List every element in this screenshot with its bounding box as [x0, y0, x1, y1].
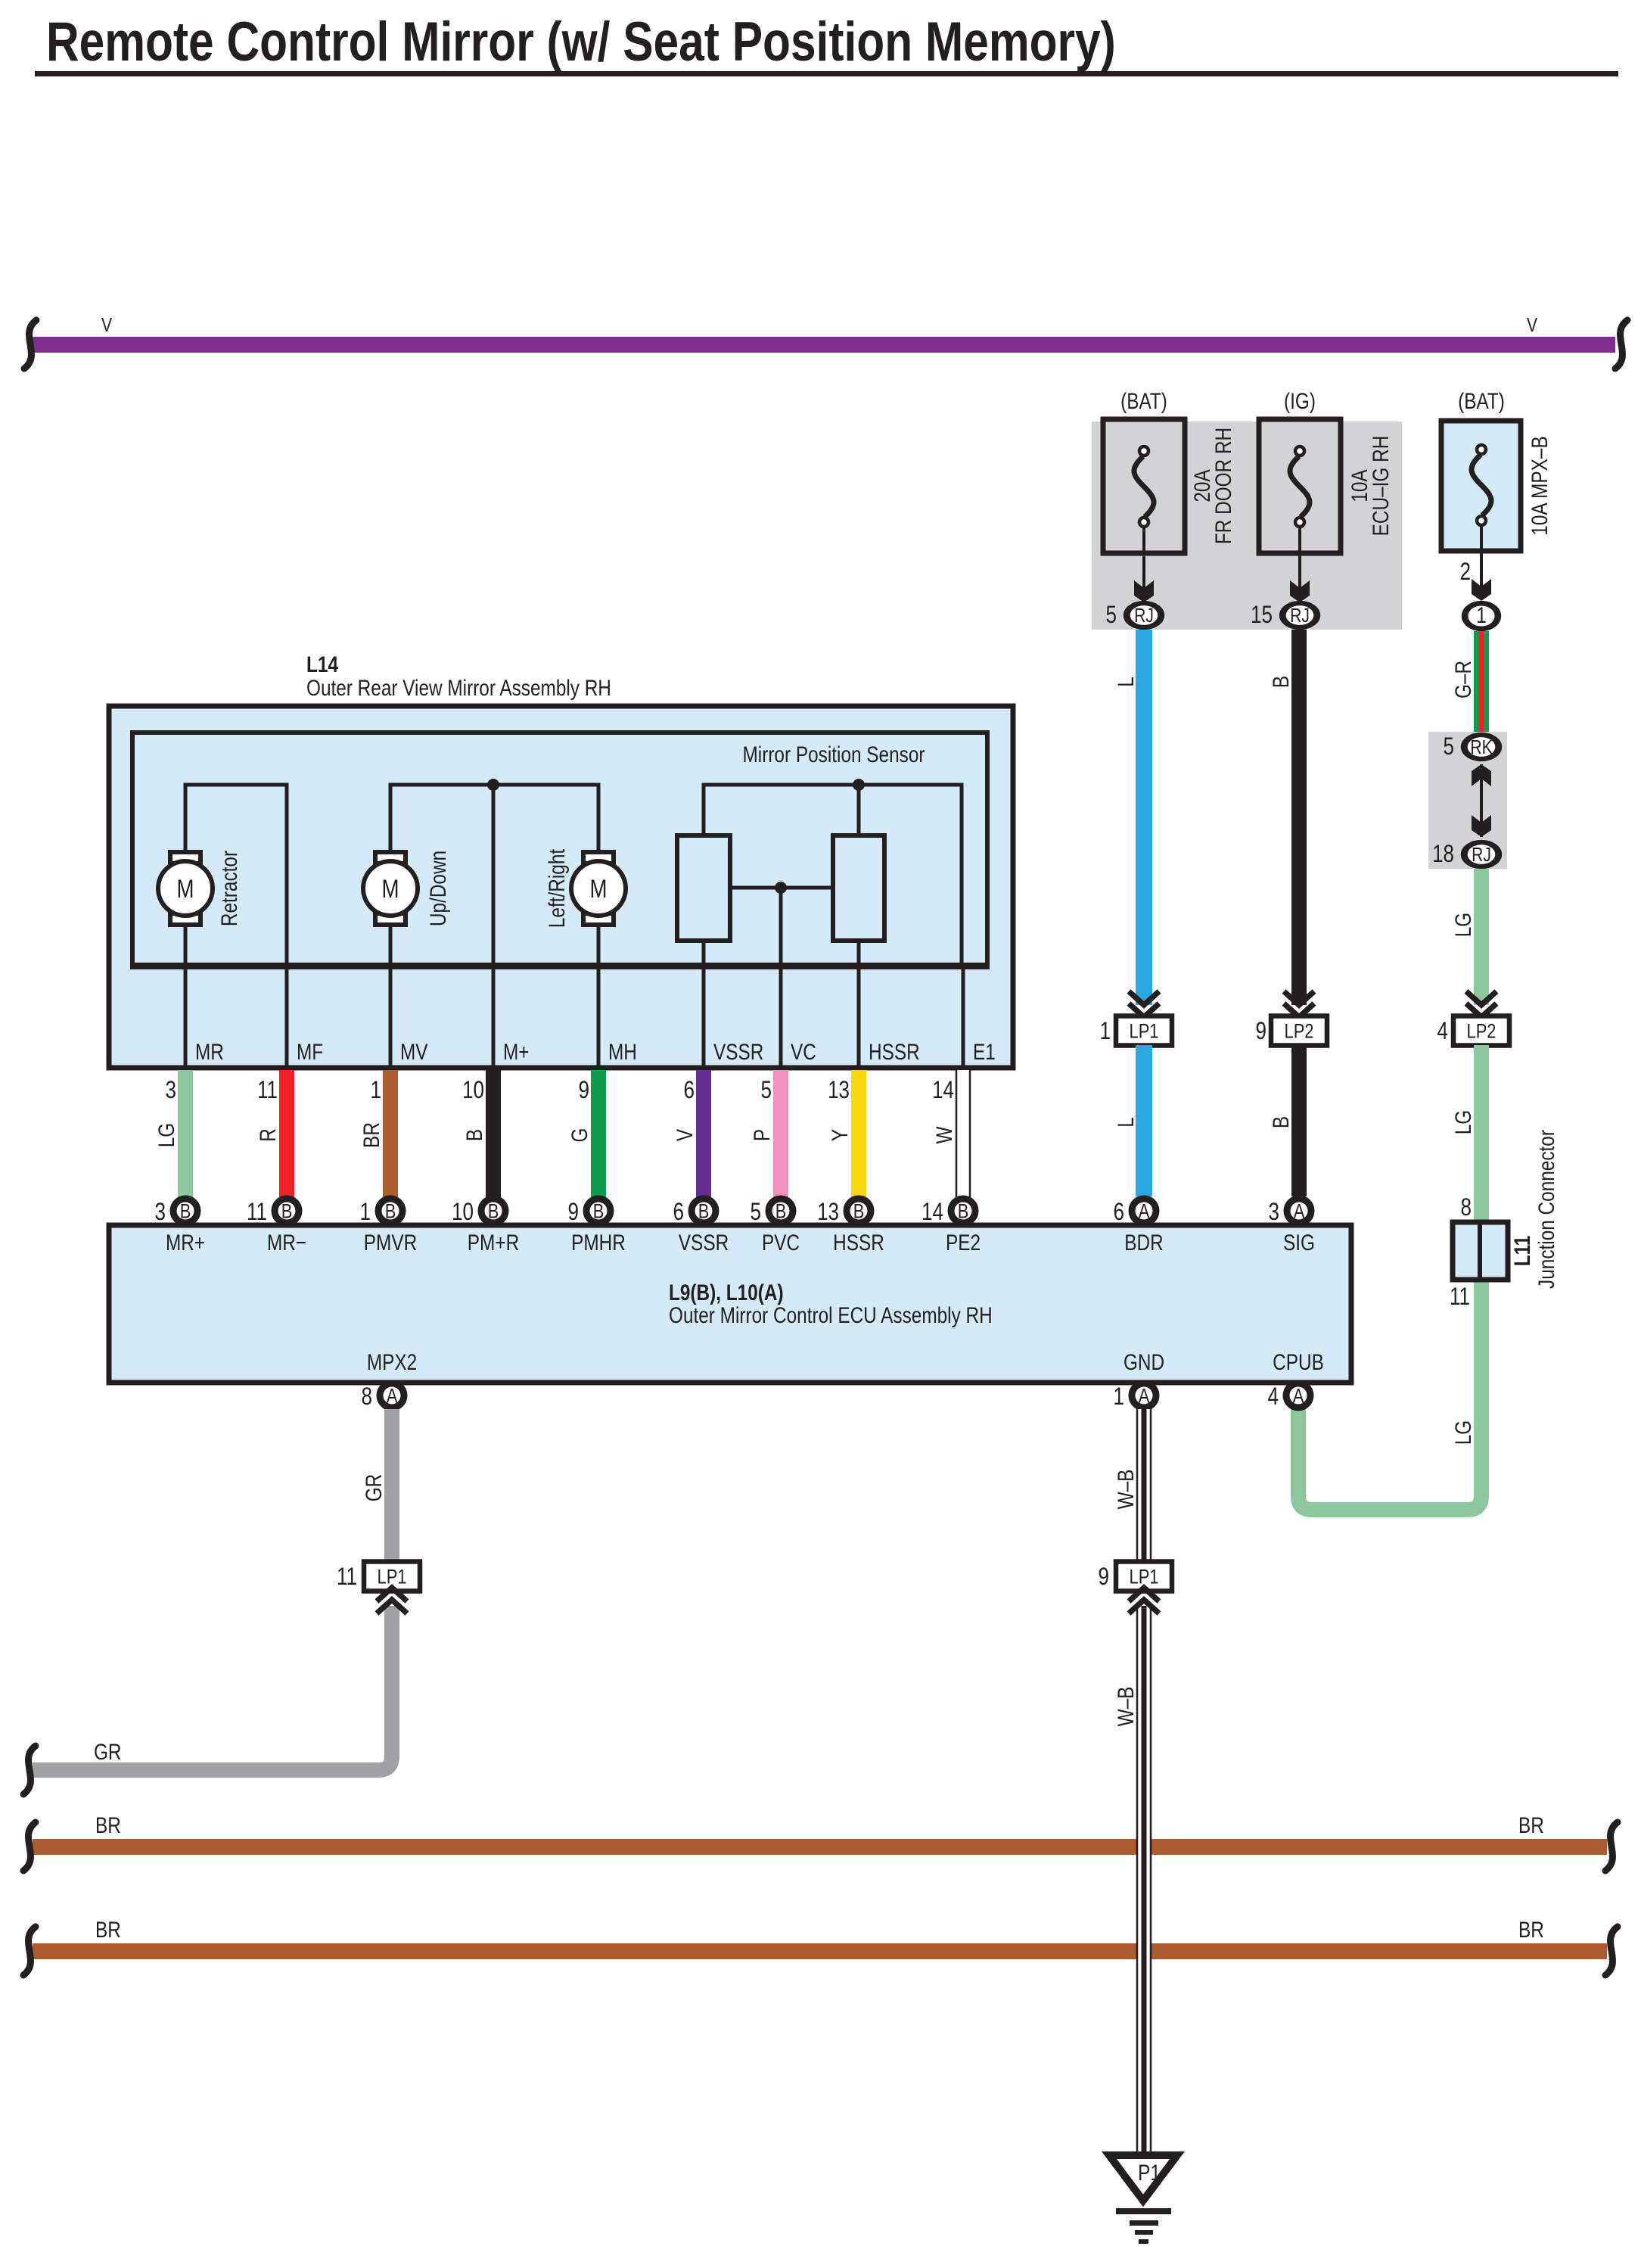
- svg-text:LG: LG: [154, 1123, 179, 1148]
- svg-text:B: B: [462, 1129, 487, 1141]
- svg-text:M: M: [590, 875, 608, 904]
- svg-text:10: 10: [462, 1076, 484, 1103]
- svg-text:8: 8: [362, 1383, 373, 1410]
- svg-text:9: 9: [568, 1198, 580, 1225]
- wire LG from L11 down to corner and to CPUB: [1298, 1275, 1481, 1510]
- svg-text:A: A: [1139, 1200, 1150, 1223]
- svg-text:M: M: [177, 875, 194, 904]
- wire fuse2 to RJ: [1298, 527, 1301, 590]
- wire BR bus 2: [33, 1943, 1607, 1959]
- svg-text:5: 5: [1106, 601, 1117, 628]
- svg-text:Outer Mirror Control ECU Assem: Outer Mirror Control ECU Assembly RH: [669, 1303, 993, 1328]
- svg-text:MR−: MR−: [267, 1230, 306, 1255]
- motor M retractor: [170, 852, 200, 863]
- connector 9 LP2: [1271, 1016, 1327, 1046]
- svg-text:(IG): (IG): [1284, 389, 1316, 414]
- junction node VC: [775, 882, 787, 894]
- arrow between RK and RJ: [1480, 764, 1483, 837]
- svg-text:3: 3: [155, 1198, 166, 1225]
- svg-text:GR: GR: [94, 1740, 122, 1765]
- svg-text:A: A: [1293, 1385, 1304, 1408]
- svg-text:Up/Down: Up/Down: [426, 851, 451, 926]
- svg-text:6: 6: [673, 1198, 685, 1225]
- svg-text:ECU–IG RH: ECU–IG RH: [1369, 436, 1394, 537]
- svg-text:V: V: [1527, 313, 1538, 336]
- wire R pin 11: [279, 1070, 294, 1199]
- svg-text:LP1: LP1: [1130, 1020, 1159, 1043]
- svg-text:L9(B), L10(A): L9(B), L10(A): [669, 1280, 784, 1305]
- break symbol right of V bus: [1615, 320, 1627, 369]
- svg-text:LP2: LP2: [1285, 1020, 1314, 1043]
- svg-text:L: L: [1114, 1117, 1139, 1128]
- svg-text:MPX2: MPX2: [367, 1350, 417, 1375]
- svg-text:Mirror Position Sensor: Mirror Position Sensor: [743, 742, 925, 767]
- wire BR pin 1: [383, 1070, 398, 1199]
- sensor resistor 1: [677, 835, 730, 941]
- connector 18 RJ: [1464, 842, 1498, 866]
- svg-text:PMHR: PMHR: [571, 1230, 626, 1255]
- svg-text:B: B: [775, 1200, 787, 1223]
- svg-text:5: 5: [1444, 733, 1455, 760]
- svg-text:6: 6: [1114, 1198, 1125, 1225]
- svg-text:HSSR: HSSR: [833, 1230, 884, 1255]
- motor M up/down: [375, 852, 406, 863]
- svg-text:A: A: [387, 1385, 398, 1408]
- junction node M+: [487, 779, 499, 791]
- svg-text:4: 4: [1268, 1383, 1279, 1410]
- pin column stubs inside L14: [184, 966, 188, 1070]
- svg-text:9: 9: [579, 1076, 590, 1103]
- pin 6 A BDR: [1132, 1199, 1156, 1223]
- svg-text:6: 6: [684, 1076, 695, 1103]
- svg-text:LP2: LP2: [1467, 1020, 1496, 1043]
- motor M left/right: [583, 852, 614, 863]
- wire B (black) from 15 RJ to LP2: [1291, 630, 1307, 1005]
- svg-text:(BAT): (BAT): [1458, 389, 1505, 414]
- break symbol GR left: [23, 1746, 36, 1794]
- svg-text:VSSR: VSSR: [713, 1040, 763, 1065]
- svg-text:5: 5: [761, 1076, 772, 1103]
- svg-text:BR: BR: [95, 1813, 121, 1838]
- wire fuse1 to RJ: [1142, 527, 1145, 590]
- svg-text:13: 13: [817, 1198, 839, 1225]
- pin 8 A MPX2: [380, 1383, 404, 1408]
- svg-text:BR: BR: [359, 1122, 384, 1148]
- svg-text:MH: MH: [608, 1040, 637, 1065]
- pin 10 B: [481, 1199, 505, 1223]
- wire up/down + left/right loop: [390, 785, 598, 852]
- svg-text:HSSR: HSSR: [869, 1040, 920, 1065]
- svg-text:1: 1: [1100, 1017, 1111, 1044]
- svg-text:(BAT): (BAT): [1120, 389, 1167, 414]
- svg-text:P: P: [750, 1129, 775, 1141]
- connector 5 RK: [1464, 735, 1498, 759]
- connector 5 RJ: [1127, 603, 1161, 627]
- wire V bus (purple): [33, 337, 1615, 353]
- svg-text:W–B: W–B: [1114, 1687, 1139, 1727]
- svg-text:PE2: PE2: [946, 1230, 981, 1255]
- wire W-B lower part: [1136, 1606, 1151, 2152]
- wire G-R (green/red): [1474, 631, 1489, 734]
- wire P pin 5: [773, 1070, 788, 1199]
- svg-text:W–B: W–B: [1114, 1470, 1139, 1510]
- svg-text:14: 14: [922, 1198, 943, 1225]
- connector 9 LP1: [1116, 1562, 1172, 1591]
- svg-text:B: B: [698, 1200, 710, 1223]
- pin 11 B: [275, 1199, 299, 1223]
- svg-text:10A MPX–B: 10A MPX–B: [1528, 436, 1552, 535]
- pin 1 A GND: [1132, 1383, 1156, 1408]
- svg-text:LG: LG: [1451, 913, 1476, 938]
- svg-text:B: B: [1269, 1116, 1294, 1128]
- svg-text:VSSR: VSSR: [679, 1230, 729, 1255]
- svg-text:GND: GND: [1124, 1350, 1164, 1375]
- svg-text:L: L: [1114, 677, 1139, 687]
- svg-text:Outer Rear View Mirror Assembl: Outer Rear View Mirror Assembly RH: [306, 676, 611, 701]
- svg-text:3: 3: [166, 1076, 177, 1103]
- component L9(B) L10(A) Outer Mirror Control ECU Assembly RH: [109, 1225, 1351, 1383]
- svg-text:E1: E1: [973, 1040, 996, 1065]
- wire V pin 6: [696, 1070, 711, 1199]
- connector 15 RJ: [1282, 603, 1316, 627]
- svg-text:11: 11: [337, 1563, 357, 1590]
- svg-text:L14: L14: [306, 652, 338, 677]
- svg-text:MR: MR: [195, 1040, 224, 1065]
- svg-text:V: V: [101, 313, 113, 336]
- svg-text:LG: LG: [1451, 1420, 1476, 1445]
- wire W pin 14: [956, 1070, 971, 1199]
- sensor resistor 2: [833, 835, 884, 941]
- svg-text:MR+: MR+: [166, 1230, 205, 1255]
- wire LG from LP2 to L11: [1474, 1045, 1489, 1227]
- pin 9 B: [586, 1199, 611, 1223]
- svg-text:13: 13: [828, 1076, 850, 1103]
- svg-text:3: 3: [1269, 1198, 1280, 1225]
- wire fuse3 pin 2: [1480, 526, 1483, 590]
- svg-text:PMVR: PMVR: [364, 1230, 417, 1255]
- svg-text:BR: BR: [1518, 1813, 1544, 1838]
- wire L (blue) from 5 RJ to LP1: [1136, 630, 1152, 1005]
- svg-text:A: A: [1294, 1200, 1305, 1223]
- svg-text:RJ: RJ: [1290, 604, 1310, 627]
- pin 6 B: [692, 1199, 716, 1223]
- svg-text:11: 11: [1450, 1283, 1470, 1310]
- svg-text:B: B: [281, 1200, 293, 1223]
- svg-text:B: B: [488, 1200, 499, 1223]
- inner box: [132, 733, 987, 966]
- wire GR from LP1 to left edge: [33, 1606, 392, 1770]
- fuse 10A MPX-B: [1441, 421, 1521, 551]
- break symbol left of V bus: [24, 320, 36, 369]
- sensor wiring: [704, 785, 962, 963]
- svg-text:MF: MF: [297, 1040, 323, 1065]
- svg-text:5: 5: [751, 1198, 762, 1225]
- svg-text:V: V: [673, 1129, 698, 1141]
- svg-text:18: 18: [1432, 840, 1454, 867]
- svg-text:Left/Right: Left/Right: [545, 848, 570, 928]
- svg-text:B: B: [958, 1200, 969, 1223]
- junction block panel 2 (gray): [1428, 732, 1507, 869]
- svg-text:L11: L11: [1510, 1236, 1535, 1267]
- pin 1 B: [378, 1199, 402, 1223]
- svg-text:PVC: PVC: [762, 1230, 800, 1255]
- connector 11 LP1: [364, 1562, 420, 1591]
- connector 4 LP2: [1453, 1016, 1509, 1046]
- pin 5 B: [769, 1199, 793, 1223]
- ground P1: [1109, 2155, 1177, 2201]
- svg-text:PM+R: PM+R: [468, 1230, 519, 1255]
- svg-text:B: B: [593, 1200, 604, 1223]
- pin 3 A SIG: [1287, 1199, 1311, 1223]
- wire L (blue) from LP1 to BDR: [1136, 1045, 1152, 1196]
- wire G pin 9: [591, 1070, 606, 1199]
- wire B pin 10: [486, 1070, 501, 1199]
- svg-text:R: R: [256, 1128, 281, 1142]
- svg-text:B: B: [1269, 676, 1294, 688]
- wire LG from RJ to LP2: [1474, 869, 1489, 1005]
- wire GR from MPX2 to LP1: [384, 1409, 399, 1562]
- svg-text:BR: BR: [1518, 1918, 1544, 1943]
- svg-text:10: 10: [452, 1198, 474, 1225]
- svg-text:Retractor: Retractor: [217, 851, 242, 926]
- svg-text:1: 1: [1114, 1383, 1125, 1410]
- fuse 20A FR DOOR RH: [1103, 419, 1185, 553]
- svg-text:11: 11: [247, 1198, 267, 1225]
- wire B (black) from LP2 to SIG: [1291, 1045, 1307, 1196]
- svg-text:8: 8: [1461, 1193, 1472, 1221]
- svg-text:LG: LG: [1451, 1110, 1476, 1135]
- wire retractor loop: [185, 785, 287, 963]
- svg-text:GR: GR: [362, 1474, 387, 1502]
- wire BR bus 1: [33, 1839, 1607, 1855]
- svg-text:15: 15: [1251, 601, 1273, 628]
- svg-text:2: 2: [1460, 558, 1472, 585]
- pin 14 B: [951, 1199, 975, 1223]
- svg-text:11: 11: [257, 1076, 278, 1103]
- svg-text:G–R: G–R: [1451, 661, 1476, 698]
- svg-text:W: W: [932, 1126, 957, 1144]
- svg-text:M: M: [382, 875, 399, 904]
- svg-text:SIG: SIG: [1283, 1230, 1315, 1255]
- svg-text:1: 1: [360, 1198, 371, 1225]
- svg-text:Remote Control Mirror (w/ Seat: Remote Control Mirror (w/ Seat Position …: [46, 11, 1116, 73]
- pin 4 A CPUB: [1286, 1383, 1310, 1408]
- svg-text:A: A: [1139, 1385, 1150, 1408]
- connector oval 1: [1465, 603, 1498, 629]
- svg-text:RK: RK: [1470, 736, 1493, 758]
- wire LG pin 3: [178, 1070, 193, 1199]
- svg-text:B: B: [853, 1200, 865, 1223]
- svg-text:FR DOOR RH: FR DOOR RH: [1211, 428, 1236, 544]
- connector 1 LP1: [1116, 1016, 1172, 1046]
- svg-text:G: G: [567, 1128, 592, 1143]
- junction node sensor top: [853, 779, 865, 791]
- svg-text:M+: M+: [503, 1040, 530, 1065]
- svg-text:14: 14: [932, 1076, 954, 1103]
- svg-text:4: 4: [1437, 1017, 1449, 1044]
- junction block panel (gray): [1092, 422, 1402, 630]
- junction connector L11: [1453, 1222, 1508, 1280]
- fuse 10A ECU-IG RH: [1259, 419, 1341, 553]
- svg-text:BR: BR: [95, 1918, 121, 1943]
- svg-text:Y: Y: [828, 1129, 853, 1141]
- pin 13 B: [847, 1199, 871, 1223]
- wire W-B from GND to ground P1: [1136, 1409, 1151, 1562]
- svg-text:VC: VC: [791, 1040, 816, 1065]
- svg-text:RJ: RJ: [1134, 604, 1154, 627]
- svg-text:1: 1: [1476, 603, 1487, 628]
- svg-text:BDR: BDR: [1124, 1230, 1163, 1255]
- svg-text:MV: MV: [400, 1040, 428, 1065]
- pin 3 B: [173, 1199, 197, 1223]
- svg-text:B: B: [385, 1200, 396, 1223]
- wire Y pin 13: [851, 1070, 866, 1199]
- svg-text:RJ: RJ: [1472, 843, 1491, 866]
- svg-text:CPUB: CPUB: [1273, 1350, 1324, 1375]
- svg-text:1: 1: [371, 1076, 382, 1103]
- svg-text:B: B: [180, 1200, 191, 1223]
- svg-text:P1: P1: [1138, 2161, 1161, 2186]
- svg-text:Junction Connector: Junction Connector: [1534, 1130, 1559, 1289]
- svg-text:9: 9: [1099, 1563, 1110, 1590]
- svg-text:9: 9: [1256, 1017, 1267, 1044]
